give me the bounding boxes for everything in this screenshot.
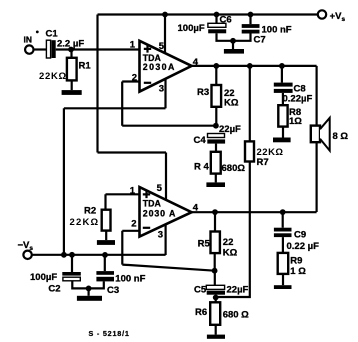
svg-text:22µF: 22µF	[227, 285, 249, 296]
terminal +Vs	[318, 10, 346, 23]
svg-text:1Ω: 1Ω	[289, 116, 302, 127]
ground (R9)	[274, 285, 292, 289]
svg-text:100 nF: 100 nF	[115, 273, 145, 284]
resistor R9 1 ohm	[278, 253, 307, 285]
svg-text:+Vs: +Vs	[330, 11, 346, 23]
svg-text:100µF: 100µF	[178, 23, 205, 34]
node C2/C3 ground	[86, 286, 92, 292]
capacitor C4 22uF	[194, 124, 242, 152]
wire U2 pin2 feedback	[122, 231, 214, 271]
op-amp U2 TDA2030A (bottom)	[130, 183, 199, 240]
svg-text:C9: C9	[294, 230, 306, 241]
resistor R7 22K	[245, 66, 284, 168]
node -Vs/C3	[102, 252, 108, 258]
node feedback2/R5	[212, 268, 218, 274]
node output2/R5	[212, 209, 218, 215]
op-amp U1 TDA2030A (top)	[130, 40, 199, 95]
svg-text:680 Ω: 680 Ω	[223, 310, 249, 321]
svg-text:KΩ: KΩ	[223, 247, 238, 258]
svg-text:22KΩ: 22KΩ	[70, 217, 100, 228]
node output1/R3	[213, 63, 219, 69]
wire speaker to output2	[316, 142, 318, 212]
wire C1 to op-amp U1 pin 1	[56, 48, 140, 50]
node rail/C6	[214, 12, 220, 18]
ground (C2/C3)	[77, 288, 102, 300]
resistor R8 1 ohm	[278, 105, 302, 137]
svg-text:0.22 µF: 0.22 µF	[287, 241, 320, 252]
wire U2 pin1 to R2	[106, 194, 140, 209]
svg-text:R 4: R 4	[194, 162, 210, 173]
capacitor C5 22uF	[194, 271, 249, 296]
svg-text:C2: C2	[48, 284, 60, 295]
svg-text:3: 3	[158, 230, 163, 241]
resistor R2 22K	[70, 206, 111, 241]
node rail/C7	[248, 12, 254, 18]
svg-text:R6: R6	[195, 307, 207, 318]
svg-text:2: 2	[131, 218, 136, 229]
svg-text:1 Ω: 1 Ω	[290, 266, 306, 277]
svg-text:IN: IN	[24, 35, 33, 45]
svg-text:R5: R5	[198, 238, 211, 249]
svg-text:5: 5	[157, 183, 163, 194]
wire U1 pin2 feedback	[122, 82, 216, 126]
svg-text:0.22µF: 0.22µF	[283, 93, 313, 104]
resistor R5 22K	[198, 212, 238, 271]
terminal -Vs	[18, 240, 34, 259]
node rail/U1 pin5	[162, 12, 168, 18]
node output1/R7	[247, 63, 253, 69]
node input/R1 junction	[68, 47, 74, 53]
svg-text:R1: R1	[79, 61, 92, 72]
resistor R6 680	[195, 295, 249, 335]
svg-text:C4: C4	[194, 135, 207, 146]
capacitor C8 0.22uF	[274, 66, 313, 105]
wire R7 to C5/R6 junction	[216, 162, 250, 298]
wire +Vs feed to U2 pin 5	[98, 153, 167, 200]
wire U1 output	[192, 65, 317, 67]
capacitor C2 100uF	[30, 255, 89, 295]
node feedback1/C4	[213, 123, 219, 129]
speaker 8 ohm	[311, 118, 349, 151]
svg-text:R2: R2	[84, 206, 96, 217]
wire U2 output	[192, 211, 317, 213]
capacitor C9 0.22uF	[274, 212, 319, 253]
svg-text:S - 5218/1: S - 5218/1	[89, 329, 130, 338]
svg-text:2030 A: 2030 A	[143, 208, 176, 218]
wire output1 to speaker	[316, 66, 318, 126]
svg-text:R7: R7	[257, 157, 269, 168]
svg-text:KΩ: KΩ	[224, 97, 239, 108]
ground (C6/C7)	[224, 41, 244, 54]
svg-text:C7: C7	[254, 35, 266, 46]
ground (R1)	[62, 90, 82, 95]
node -Vs/U1 pin3 drop	[61, 252, 67, 258]
resistor R3 22K	[197, 66, 239, 126]
node output1/C8	[279, 63, 285, 69]
svg-text:C6: C6	[220, 15, 232, 26]
capacitor C7 100nF	[233, 15, 292, 46]
wire +Vs left drop	[96, 15, 98, 153]
svg-text:2030A: 2030A	[143, 62, 176, 72]
wire -Vs left drop	[63, 108, 65, 255]
ground (R4)	[206, 182, 225, 187]
node C5/R6/R7	[213, 295, 219, 301]
node C6/C7 ground	[230, 38, 236, 44]
svg-text:C3: C3	[107, 285, 119, 296]
capacitor C3 100nF	[89, 255, 146, 296]
svg-text:C5: C5	[194, 285, 207, 296]
capacitor C6 100uF	[178, 15, 234, 41]
ground (R6)	[207, 335, 225, 339]
ground (R8)	[273, 138, 291, 143]
resistor R4 680	[194, 152, 245, 183]
ground (R2)	[97, 240, 115, 245]
input terminal IN	[24, 31, 39, 54]
resistor R1 22K	[39, 50, 91, 91]
svg-text:680Ω: 680Ω	[222, 163, 246, 174]
svg-text:1: 1	[130, 40, 136, 51]
wire IN to C1	[34, 48, 47, 50]
node output2/C9	[280, 209, 286, 215]
wire -Vs rail	[32, 254, 166, 256]
svg-text:3: 3	[159, 84, 164, 95]
svg-text:8 Ω: 8 Ω	[333, 131, 349, 142]
svg-text:22KΩ: 22KΩ	[39, 71, 67, 82]
svg-text:100µF: 100µF	[30, 272, 57, 283]
wire U2 pin3 riser	[165, 225, 167, 255]
wire +Vs top rail	[98, 13, 319, 15]
wire -Vs line to U1 pin3	[64, 107, 166, 109]
wire U1 pin3 riser	[164, 79, 166, 108]
node -Vs/C2	[69, 252, 75, 258]
svg-text:100 nF: 100 nF	[262, 25, 292, 36]
svg-text:TDA: TDA	[143, 198, 162, 208]
svg-text:R3: R3	[197, 87, 209, 98]
capacitor C1 2.2uF	[46, 29, 85, 59]
wire U1 pin5 riser to +Vs rail	[164, 15, 166, 54]
